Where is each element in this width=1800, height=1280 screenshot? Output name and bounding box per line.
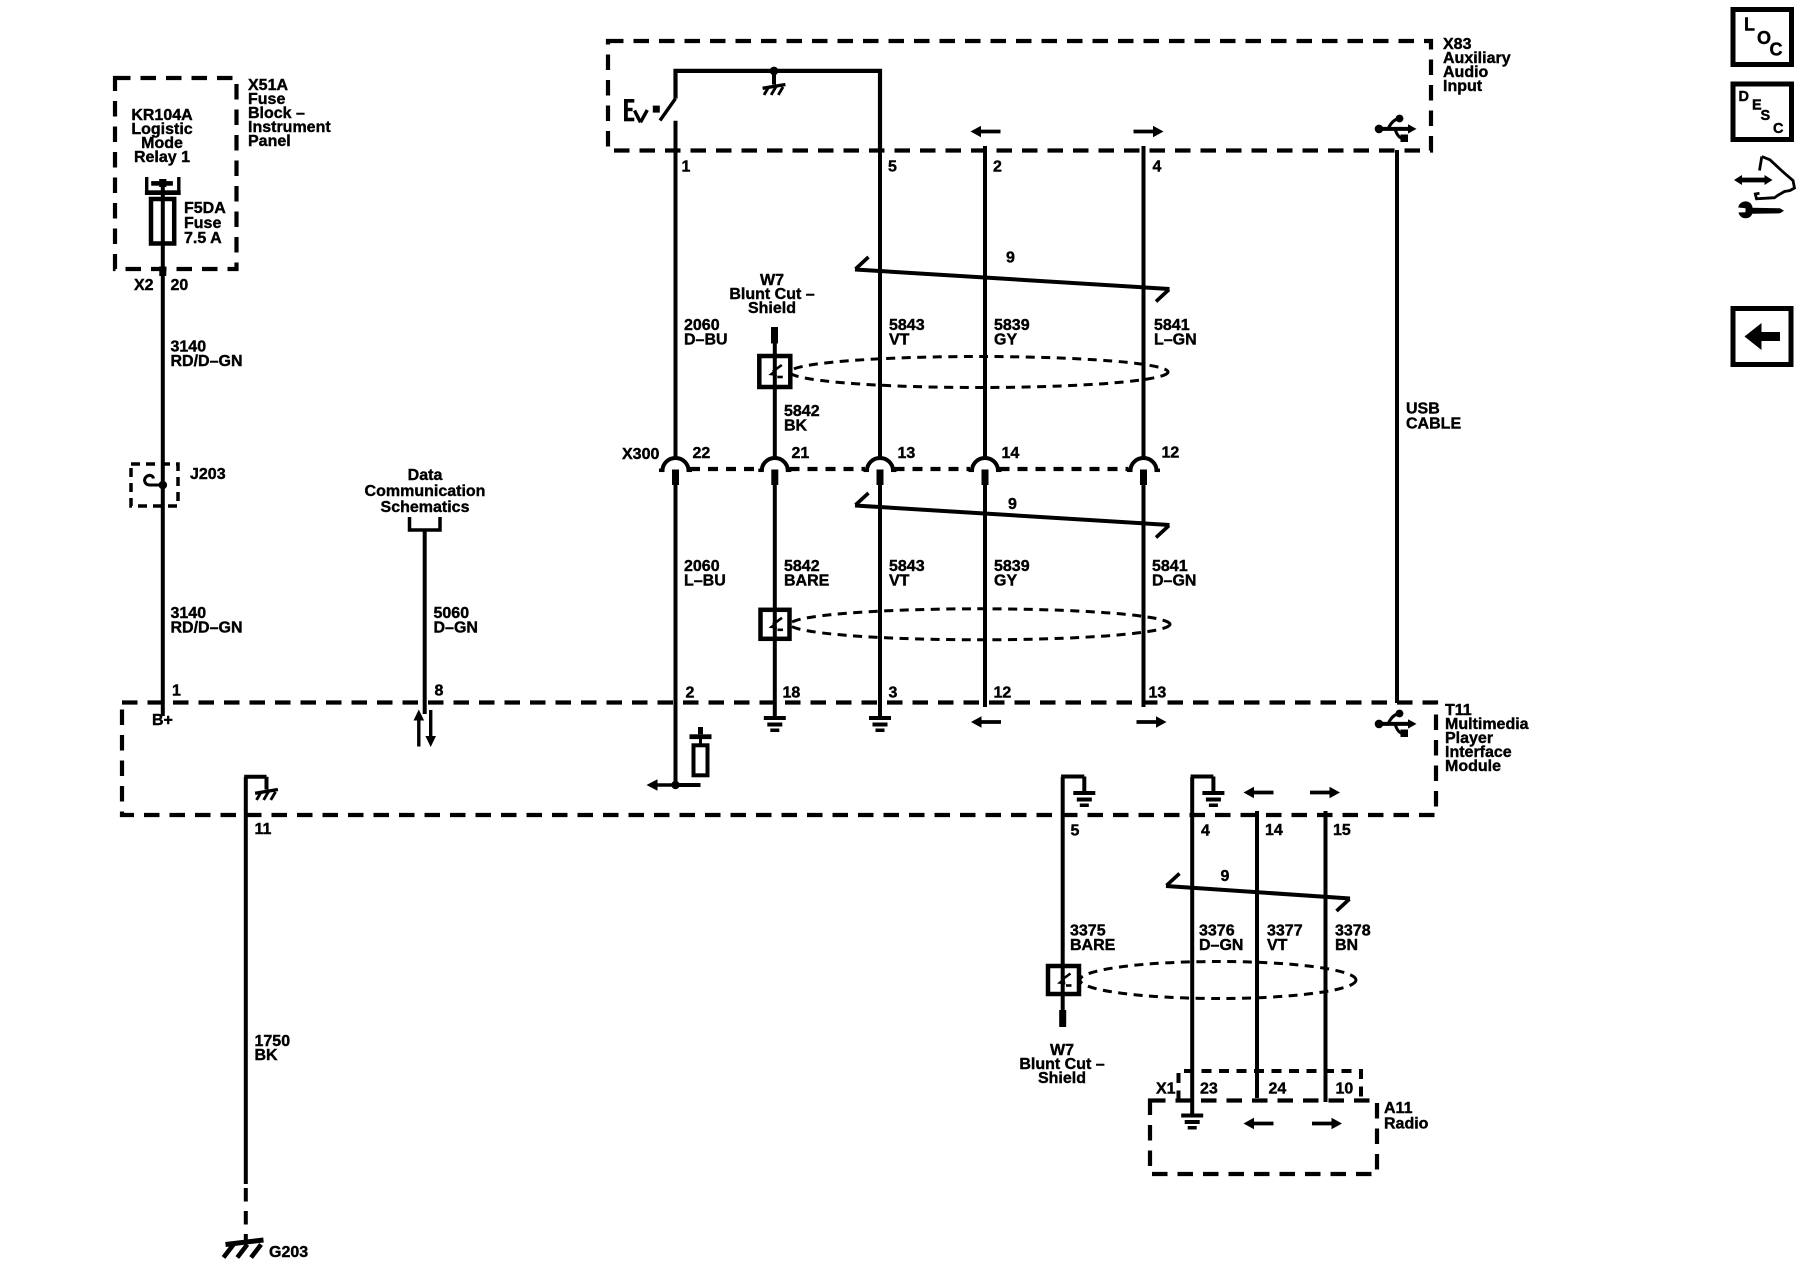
svg-text:12: 12 (994, 685, 1012, 702)
svg-text:1: 1 (682, 159, 691, 176)
svg-text:VT: VT (889, 332, 910, 349)
svg-text:12: 12 (1162, 445, 1180, 462)
svg-text:14: 14 (1265, 822, 1283, 839)
svg-text:GY: GY (994, 573, 1017, 590)
svg-text:BARE: BARE (784, 573, 830, 590)
svg-text:9: 9 (1006, 250, 1015, 267)
svg-text:23: 23 (1200, 1081, 1218, 1098)
svg-text:X2: X2 (134, 277, 154, 294)
svg-text:2: 2 (686, 685, 695, 702)
svg-text:C: C (1770, 40, 1783, 60)
svg-text:Shield: Shield (748, 300, 796, 317)
svg-text:Input: Input (1443, 78, 1483, 95)
svg-text:B+: B+ (152, 712, 173, 729)
svg-text:L–BU: L–BU (684, 573, 726, 590)
svg-text:G203: G203 (269, 1244, 308, 1261)
svg-text:BK: BK (784, 418, 808, 435)
svg-text:C: C (1773, 121, 1784, 137)
svg-text:5: 5 (1071, 823, 1080, 840)
svg-text:BK: BK (255, 1047, 279, 1064)
svg-text:24: 24 (1269, 1081, 1287, 1098)
svg-text:18: 18 (783, 685, 801, 702)
svg-text:11: 11 (255, 821, 272, 838)
svg-text:13: 13 (898, 445, 916, 462)
svg-text:7.5 A: 7.5 A (184, 230, 222, 247)
svg-text:21: 21 (792, 445, 810, 462)
svg-text:Relay 1: Relay 1 (134, 149, 190, 166)
svg-text:J203: J203 (190, 466, 226, 483)
svg-text:L–GN: L–GN (1154, 332, 1197, 349)
svg-text:9: 9 (1221, 868, 1230, 885)
svg-text:Panel: Panel (248, 133, 291, 150)
svg-text:D–BU: D–BU (684, 332, 728, 349)
svg-text:CABLE: CABLE (1406, 416, 1461, 433)
svg-text:S: S (1761, 108, 1771, 124)
svg-text:VT: VT (1267, 937, 1288, 954)
svg-text:4: 4 (1153, 159, 1162, 176)
svg-text:20: 20 (171, 277, 189, 294)
svg-text:BARE: BARE (1070, 937, 1116, 954)
svg-text:Shield: Shield (1038, 1070, 1086, 1087)
svg-text:Schematics: Schematics (381, 499, 470, 516)
svg-text:22: 22 (693, 445, 711, 462)
svg-text:Data: Data (408, 467, 443, 484)
svg-text:4: 4 (1201, 823, 1210, 840)
svg-text:9: 9 (1008, 496, 1017, 513)
svg-text:D–GN: D–GN (1199, 937, 1243, 954)
svg-text:14: 14 (1002, 445, 1020, 462)
svg-text:RD/D–GN: RD/D–GN (171, 620, 243, 637)
svg-text:Communication: Communication (365, 483, 486, 500)
svg-text:1: 1 (172, 683, 181, 700)
svg-text:RD/D–GN: RD/D–GN (171, 353, 243, 370)
svg-text:BN: BN (1335, 937, 1358, 954)
svg-text:D–GN: D–GN (1152, 573, 1196, 590)
svg-text:L: L (1744, 15, 1755, 35)
svg-text:Module: Module (1445, 758, 1501, 775)
svg-text:2: 2 (993, 159, 1002, 176)
svg-text:3: 3 (889, 685, 898, 702)
svg-text:GY: GY (994, 332, 1017, 349)
svg-text:15: 15 (1333, 822, 1351, 839)
svg-text:10: 10 (1336, 1081, 1354, 1098)
svg-text:X300: X300 (622, 446, 659, 463)
svg-text:D–GN: D–GN (434, 620, 478, 637)
svg-text:5: 5 (888, 159, 897, 176)
svg-text:VT: VT (889, 573, 910, 590)
svg-text:13: 13 (1149, 685, 1167, 702)
svg-text:Radio: Radio (1384, 1116, 1429, 1133)
svg-text:X1: X1 (1156, 1081, 1176, 1098)
svg-text:D: D (1739, 89, 1749, 105)
svg-text:A11: A11 (1384, 1100, 1413, 1117)
svg-text:8: 8 (435, 683, 444, 700)
